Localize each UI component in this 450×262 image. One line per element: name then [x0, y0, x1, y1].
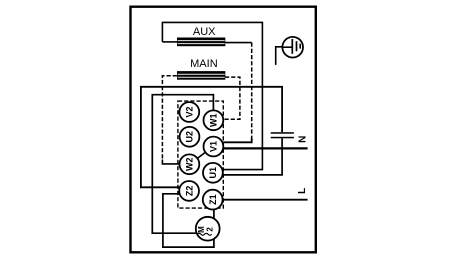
wire capacitor bottom to U1	[223, 138, 283, 175]
svg-text:Z1: Z1	[208, 194, 218, 205]
svg-text:V1: V1	[209, 141, 219, 152]
wire dashed MAIN right to W1	[223, 77, 240, 119]
svg-text:W2: W2	[185, 158, 195, 172]
line N supply	[223, 147, 307, 149]
wire AUX left lead	[162, 41, 177, 43]
svg-text:M: M	[197, 226, 206, 233]
wire AUX loop (AUX left end to U1)	[162, 22, 262, 169]
svg-text:U1: U1	[208, 167, 218, 179]
line L supply	[222, 199, 307, 201]
winding bar AUX	[177, 38, 225, 47]
capacitor C	[271, 132, 294, 138]
terminal Z1	[203, 190, 223, 210]
svg-text:U2: U2	[185, 131, 195, 143]
svg-text:N: N	[298, 136, 309, 143]
motor M1 circle	[196, 217, 220, 241]
svg-text:Z2: Z2	[184, 186, 194, 197]
svg-text:V2: V2	[185, 106, 195, 117]
wire V1 to AUX corner	[223, 139, 251, 143]
wire W1 to motor	[152, 95, 213, 234]
terminal V2	[179, 102, 199, 122]
svg-text:W1: W1	[209, 114, 219, 128]
terminal U2	[180, 127, 200, 147]
winding bar MAIN	[177, 71, 225, 80]
wire dashed vertical AUX-to-V1	[251, 43, 253, 143]
wire diagonal W2 to V1	[189, 147, 213, 165]
terminal U1	[203, 163, 223, 183]
ground symbol	[276, 37, 303, 65]
terminal W2	[180, 154, 200, 174]
terminal Z2	[179, 181, 199, 201]
svg-text:AUX: AUX	[193, 26, 216, 38]
wire dashed MAIN left to W2	[162, 76, 177, 161]
terminal V1	[204, 137, 224, 157]
wire Z2 to capacitor top	[141, 87, 282, 188]
svg-text:MAIN: MAIN	[190, 58, 218, 70]
wire stub into W2	[162, 160, 181, 164]
outer border frame	[131, 7, 316, 253]
svg-text:L: L	[297, 188, 308, 194]
wire jumper Z2 to Z1	[163, 194, 214, 247]
svg-text:2: 2	[206, 227, 215, 232]
wire AUX right lead	[225, 42, 252, 44]
dashed terminal box	[178, 101, 223, 208]
terminal W1	[204, 110, 224, 130]
